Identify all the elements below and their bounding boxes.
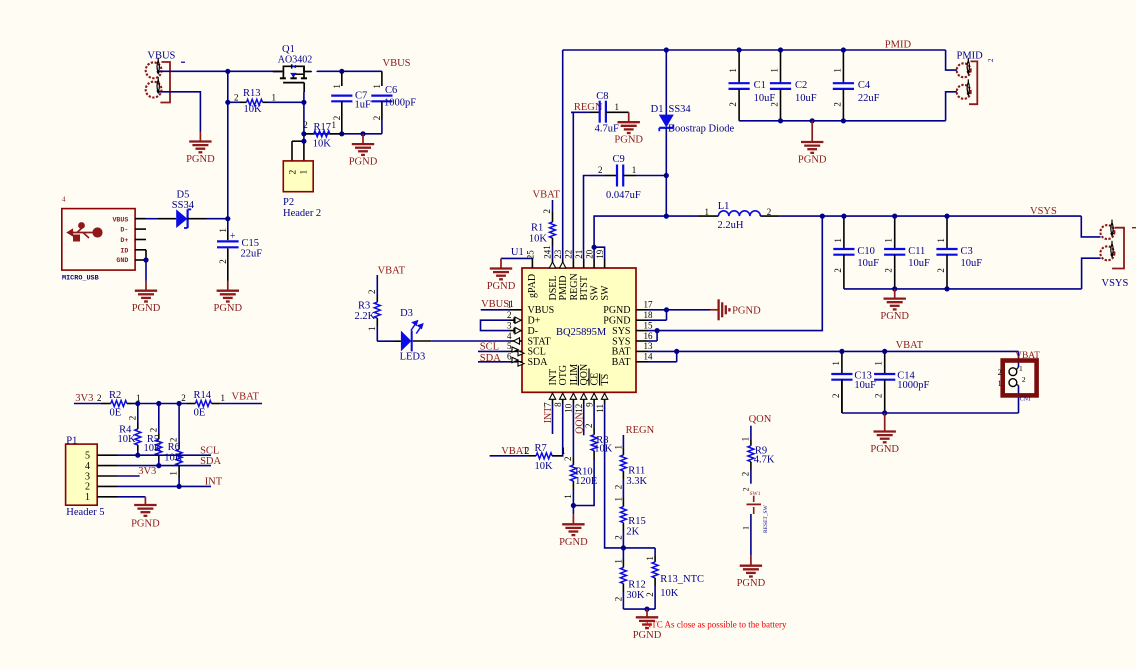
wire TS node to R13_NTC	[623, 547, 655, 549]
svg-text:10K: 10K	[660, 588, 679, 599]
svg-text:1: 1	[831, 361, 841, 366]
junction at (179.1,486.4)	[177, 484, 182, 489]
svg-text:11: 11	[595, 404, 605, 413]
IC U1 left pin 1 VBUS	[510, 309, 522, 311]
svg-text:P1: P1	[66, 435, 77, 446]
wire GND down to PGND	[145, 260, 147, 281]
IC U1 top pin 22 REGN	[572, 259, 574, 268]
ground PGND under MICRO_USB	[145, 281, 147, 291]
svg-text:PGND: PGND	[633, 630, 662, 641]
resistor R3	[376, 275, 378, 295]
junction at (822.3,216.1)	[820, 214, 825, 219]
junction at (657.1,330.6)	[655, 328, 660, 333]
svg-text:VBAT: VBAT	[896, 340, 924, 351]
IC U1 left pin 6 SDA	[510, 361, 522, 363]
header P2	[303, 134, 305, 141]
wire OTG from U1 pin8 to R7	[552, 404, 563, 456]
svg-text:0E: 0E	[110, 408, 122, 419]
svg-text:1: 1	[741, 437, 751, 442]
capacitor C11	[894, 216, 896, 249]
svg-text:R13_NTC: R13_NTC	[660, 574, 704, 585]
IC U1 pin glyphs left edge	[515, 317, 521, 323]
svg-text:1: 1	[705, 207, 710, 217]
resistor R6	[178, 404, 180, 444]
svg-text:10K: 10K	[244, 104, 263, 115]
svg-text:VBUS: VBUS	[481, 299, 509, 310]
IC U1 right pin 13 BAT	[636, 350, 648, 352]
wire SDA to U1 pin6	[478, 361, 510, 363]
wire PMID top rail	[563, 49, 946, 51]
svg-text:7: 7	[543, 402, 553, 407]
svg-text:PGND: PGND	[349, 157, 378, 168]
svg-text:1: 1	[645, 556, 655, 561]
ground PGND under P1	[134, 504, 156, 506]
svg-text:2: 2	[127, 416, 137, 421]
svg-text:2: 2	[831, 394, 841, 399]
svg-text:2: 2	[769, 102, 779, 107]
svg-text:1: 1	[613, 559, 623, 564]
svg-text:10K: 10K	[118, 434, 137, 445]
svg-text:2: 2	[218, 259, 228, 264]
svg-text:18: 18	[644, 310, 654, 320]
junction at (676.7,351.4)	[674, 349, 679, 354]
svg-text:10uF: 10uF	[857, 258, 879, 269]
svg-text:19: 19	[595, 249, 605, 259]
svg-text:2: 2	[998, 368, 1002, 377]
svg-text:PMID: PMID	[558, 275, 569, 300]
svg-text:VSYS: VSYS	[1030, 206, 1057, 217]
tiny mark near VBUS loops	[181, 61, 185, 63]
resistor R1	[552, 200, 554, 212]
capacitor C4	[842, 50, 844, 83]
svg-text:12: 12	[574, 404, 584, 413]
svg-text:1: 1	[613, 445, 623, 450]
wire Q1 drain to VBUS rail right	[304, 71, 313, 73]
svg-text:PGND: PGND	[880, 311, 909, 322]
IC U1 right pin 14 BAT	[636, 361, 648, 363]
svg-text:SYS: SYS	[612, 336, 630, 347]
IC U1 left pin 5 SCL	[510, 350, 522, 352]
svg-text:10K: 10K	[529, 234, 548, 245]
svg-text:4: 4	[507, 331, 512, 341]
wire VSYS rail	[822, 215, 1081, 217]
svg-text:10uF: 10uF	[854, 380, 876, 391]
wire TS from U1 pin11	[605, 404, 624, 548]
junction at (812.2,120.8)	[810, 118, 815, 123]
svg-text:4: 4	[85, 461, 90, 472]
svg-text:gPAD: gPAD	[527, 274, 538, 298]
svg-text:VBAT: VBAT	[378, 265, 406, 276]
wire Q1 gate down to R13/R17 node	[303, 92, 305, 134]
junction at (137.8,455.2)	[135, 453, 140, 458]
resistor R9	[750, 426, 752, 440]
svg-text:1: 1	[561, 446, 566, 456]
IC U1 top pin 23 PMID	[562, 259, 564, 268]
wire STAT from LED3 to U1 pin4	[413, 340, 432, 342]
svg-text:PGND: PGND	[487, 281, 516, 292]
wire SDA from P1 pin4	[117, 465, 211, 467]
svg-text:REGN: REGN	[626, 425, 655, 436]
svg-text:5: 5	[507, 341, 512, 351]
IC U1 bottom pin 7 INT	[552, 392, 554, 403]
junction at (303.9,141.2)	[301, 139, 306, 144]
svg-text:23: 23	[553, 249, 563, 259]
svg-text:PGND: PGND	[603, 305, 630, 316]
IC U1 top pin 19 SW	[604, 259, 606, 268]
IC U1 left pin 4 STAT	[510, 340, 522, 342]
svg-text:1: 1	[372, 84, 382, 89]
wire bottom rail R12/R13_NTC	[623, 608, 655, 610]
junction at (227.8,102.3)	[225, 100, 230, 105]
svg-text:D+: D+	[120, 237, 128, 244]
IC U1 right pin 16 SYS	[636, 340, 648, 342]
svg-text:PMID: PMID	[885, 40, 912, 51]
svg-text:3.3K: 3.3K	[626, 476, 647, 487]
svg-text:1: 1	[509, 299, 514, 309]
svg-text:D3: D3	[400, 308, 413, 319]
svg-text:1: 1	[884, 238, 894, 243]
svg-text:2.2uH: 2.2uH	[718, 220, 744, 231]
svg-text:R14: R14	[194, 390, 212, 401]
svg-text:PGND: PGND	[559, 537, 588, 548]
svg-text:2: 2	[1022, 375, 1026, 384]
junction at (841.9,351.4)	[839, 349, 844, 354]
svg-text:PGND: PGND	[186, 154, 215, 165]
capacitor C1	[738, 50, 740, 83]
svg-text:4: 4	[62, 196, 66, 204]
junction at (894.7,216.1)	[892, 214, 897, 219]
IC U1 right pin 15 SYS	[636, 330, 648, 332]
svg-text:CE: CE	[590, 373, 601, 386]
svg-text:2: 2	[833, 268, 843, 273]
capacitor C13	[841, 351, 843, 374]
svg-text:1: 1	[542, 245, 552, 250]
junction at (303.9,101.9)	[301, 100, 306, 105]
capacitor C10	[843, 216, 845, 249]
wire U1 pin22 REGN up and left	[571, 112, 573, 259]
svg-text:R17: R17	[314, 122, 332, 133]
wire SCL from P1 pin5	[117, 454, 211, 456]
wire ID to GND tie	[145, 250, 147, 260]
svg-text:22uF: 22uF	[858, 93, 880, 104]
wire loop D+ D- U1 pins 2-3	[481, 320, 511, 330]
svg-text:PGND: PGND	[798, 155, 827, 166]
svg-text:21: 21	[574, 250, 584, 259]
svg-text:3V3: 3V3	[75, 393, 93, 404]
capacitor C7	[341, 71, 343, 86]
svg-text:1: 1	[332, 84, 342, 89]
svg-text:VBUS: VBUS	[383, 58, 411, 69]
svg-text:R12: R12	[628, 579, 646, 590]
svg-text:SW1: SW1	[750, 491, 761, 497]
svg-text:PGND: PGND	[737, 578, 766, 589]
junction at (179.1,403.5)	[177, 401, 182, 406]
wire vertical from VBUS rail down to D5 node	[227, 71, 229, 218]
svg-text:C15: C15	[242, 238, 260, 249]
svg-text:1: 1	[833, 238, 843, 243]
junction at (739.1,50)	[737, 47, 742, 52]
svg-text:PGND: PGND	[131, 519, 160, 530]
svg-text:2K: 2K	[626, 527, 639, 538]
svg-text:2: 2	[525, 446, 530, 456]
junction at (647,609.1)	[644, 607, 649, 612]
svg-text:CN1: CN1	[1020, 396, 1031, 402]
capacitor C6	[381, 71, 383, 86]
inductor L1	[666, 215, 698, 217]
svg-text:PGND: PGND	[214, 303, 243, 314]
svg-text:2: 2	[613, 485, 623, 490]
junction at (227.8,71.3)	[225, 69, 230, 74]
svg-text:SDA: SDA	[200, 456, 221, 467]
wire U1 pins 19/20 SW up to SW rail	[594, 247, 605, 259]
resistor R11	[622, 435, 624, 448]
svg-text:16: 16	[644, 331, 654, 341]
svg-text:1: 1	[998, 379, 1002, 388]
junction at (780.5,120.8)	[778, 118, 783, 123]
svg-text:+: +	[230, 231, 236, 242]
junction at (594.1,247.2)	[592, 245, 597, 250]
tiny mark near VSYS loops	[1132, 227, 1136, 229]
junction at (666.3,216.1)	[664, 214, 669, 219]
wire INT from U1 pin7	[552, 404, 554, 435]
svg-text:R2: R2	[109, 390, 121, 401]
svg-text:13: 13	[644, 341, 654, 351]
svg-text:2: 2	[563, 457, 573, 462]
svg-text:8: 8	[553, 402, 563, 407]
resistor R4	[137, 404, 139, 424]
wire PMID cap bank bottom rail	[739, 120, 946, 122]
svg-text:2: 2	[584, 424, 594, 429]
wire SW1 to ground	[750, 514, 752, 556]
svg-text:4.7uF: 4.7uF	[595, 124, 619, 135]
diode D1 SS34 bootstrap	[665, 50, 667, 116]
junction at (843.4,120.8)	[841, 118, 846, 123]
ground PGND under VSYS bank	[894, 289, 896, 299]
svg-text:2: 2	[372, 116, 382, 121]
svg-text:PMID: PMID	[957, 51, 984, 62]
svg-text:2: 2	[987, 58, 995, 62]
test loop VBUS loop 1	[146, 62, 162, 78]
IC U1 left pin 3 D-	[510, 330, 522, 332]
wire 3V3 from P1 pin3	[117, 475, 140, 477]
svg-text:PGND: PGND	[614, 135, 643, 146]
svg-text:2: 2	[289, 170, 299, 175]
svg-text:NTC As close as possible to th: NTC As close as possible to the battery	[645, 620, 787, 630]
junction at (666.3,50)	[664, 47, 669, 52]
svg-text:2: 2	[148, 428, 158, 433]
svg-text:2: 2	[832, 102, 842, 107]
junction at (884.7,413)	[882, 410, 887, 415]
svg-text:BAT: BAT	[612, 347, 631, 358]
capacitor C8	[571, 111, 590, 113]
svg-text:2: 2	[613, 535, 623, 540]
svg-text:30K: 30K	[626, 590, 645, 601]
ground PGND under SW1	[750, 556, 752, 566]
svg-text:OTG: OTG	[558, 365, 569, 386]
svg-text:SCL: SCL	[200, 446, 219, 457]
svg-text:C4: C4	[858, 80, 871, 91]
ground PGND under R10/R8	[572, 506, 574, 515]
svg-text:10K: 10K	[144, 443, 163, 454]
junction at (341.8,133.8)	[339, 131, 344, 136]
test loop VBUS loop 2	[146, 82, 162, 98]
capacitor C14	[884, 351, 886, 374]
IC U1 bottom pin 10 ILIM	[572, 392, 574, 403]
junction at (227.8,218.7)	[225, 216, 230, 221]
svg-text:10K: 10K	[164, 453, 183, 464]
svg-text:2: 2	[542, 209, 552, 214]
svg-text:INT: INT	[543, 407, 554, 424]
wire U1 pin24 up to R1 (DSEL)	[552, 258, 554, 260]
USB trident icon	[67, 223, 102, 241]
IC U1 bottom pin 11 TS	[604, 392, 606, 403]
svg-text:4.7K: 4.7K	[754, 455, 775, 466]
svg-text:QON: QON	[574, 412, 585, 434]
svg-text:1: 1	[169, 471, 179, 476]
ground PGND under C15	[227, 281, 229, 291]
svg-text:Q1: Q1	[282, 44, 295, 55]
svg-text:VBUS: VBUS	[528, 305, 555, 316]
svg-text:2: 2	[884, 268, 894, 273]
svg-text:1: 1	[728, 68, 738, 73]
svg-text:2: 2	[303, 120, 308, 130]
ground PGND at C8	[628, 112, 630, 122]
resistor R13_NTC	[654, 548, 656, 556]
wire U1 pin23 PMID up to top rail	[562, 50, 564, 259]
junction at (158.8,403.5)	[156, 401, 161, 406]
ground PGND at U1 gPAD	[500, 258, 502, 268]
wire VBAT bank bottom rail	[842, 412, 1019, 414]
svg-text:1: 1	[742, 526, 751, 530]
svg-text:C6: C6	[385, 85, 397, 96]
svg-text:3V3: 3V3	[138, 466, 156, 477]
svg-text:SDA: SDA	[528, 357, 549, 368]
svg-text:15: 15	[644, 320, 654, 330]
svg-text:1: 1	[332, 120, 337, 130]
svg-text:VBUS: VBUS	[112, 216, 128, 223]
svg-text:3: 3	[507, 320, 512, 330]
svg-text:2: 2	[181, 393, 186, 403]
IC U1 bottom pin 12 QON	[583, 392, 585, 403]
svg-text:C2: C2	[795, 80, 807, 91]
resistor R13	[228, 101, 240, 103]
svg-text:1: 1	[367, 327, 377, 332]
svg-text:0E: 0E	[194, 408, 206, 419]
svg-text:D1: D1	[651, 104, 664, 115]
svg-text:SW: SW	[600, 285, 611, 301]
svg-text:1: 1	[874, 361, 884, 366]
svg-text:9: 9	[584, 402, 594, 407]
ground PGND under VBUS loop	[199, 132, 201, 142]
svg-text:AO3402: AO3402	[278, 55, 312, 66]
svg-text:1: 1	[769, 68, 779, 73]
svg-text:R15: R15	[628, 516, 646, 527]
svg-text:C8: C8	[596, 91, 608, 102]
IC U1 bottom pin 8 OTG	[562, 392, 564, 403]
svg-text:1: 1	[832, 68, 842, 73]
ground PGND under C7/C6 rail	[362, 134, 364, 144]
resistor R17	[304, 133, 314, 135]
svg-text:1: 1	[300, 170, 310, 175]
wire INT from P1 pin2	[117, 485, 211, 487]
junction at (146,260)	[143, 257, 148, 262]
svg-text:MICRO_USB: MICRO_USB	[62, 275, 99, 283]
svg-text:1: 1	[1019, 364, 1023, 373]
IC U1 top pin 20 SW	[593, 259, 595, 268]
svg-text:1: 1	[632, 165, 637, 175]
svg-text:3: 3	[85, 471, 90, 482]
svg-text:VBAT: VBAT	[533, 190, 561, 201]
wire ILIM from U1 pin10 to R10	[572, 404, 574, 459]
svg-text:2: 2	[85, 482, 90, 493]
svg-text:Header 2: Header 2	[283, 208, 321, 219]
svg-text:2: 2	[507, 310, 512, 320]
junction at (341.8,71.3)	[339, 69, 344, 74]
svg-text:D-: D-	[120, 227, 128, 234]
svg-text:1: 1	[218, 228, 228, 233]
svg-text:U1: U1	[511, 247, 524, 258]
junction at (780.5,50)	[778, 47, 783, 52]
svg-text:R7: R7	[535, 443, 547, 454]
svg-text:10K: 10K	[535, 461, 554, 472]
svg-text:22: 22	[564, 250, 574, 259]
svg-text:2.2K: 2.2K	[355, 311, 376, 322]
resistor R2	[74, 403, 101, 405]
svg-text:2: 2	[741, 472, 751, 477]
svg-text:PGND: PGND	[603, 316, 630, 327]
wire VSYS bank bottom rail	[844, 288, 1082, 290]
svg-text:1: 1	[613, 497, 623, 502]
svg-text:2: 2	[97, 393, 102, 403]
wire SCL to U1 pin5	[478, 350, 510, 352]
wire U1 pin21 BTST up to C9	[584, 176, 591, 260]
svg-text:Header 5: Header 5	[66, 507, 104, 518]
IC U1 bottom pin 9 CE	[593, 392, 595, 403]
capacitor C9	[590, 175, 605, 177]
svg-text:BAT: BAT	[612, 357, 631, 368]
svg-text:SS34: SS34	[172, 200, 195, 211]
wire VBUS to U1 pin1	[481, 309, 510, 311]
svg-text:D5: D5	[177, 189, 190, 200]
junction at (666.5,309.8)	[664, 307, 669, 312]
svg-text:R6: R6	[168, 442, 180, 453]
wire BAT from U1 pins13/14	[648, 350, 677, 352]
junction at (947,288.9)	[944, 286, 949, 291]
svg-text:1: 1	[221, 393, 226, 403]
svg-text:2: 2	[767, 207, 772, 217]
svg-text:C3: C3	[961, 246, 973, 257]
test loop connector VSYS	[1081, 216, 1100, 237]
junction at (894.7,288.9)	[892, 286, 897, 291]
svg-text:VBAT: VBAT	[232, 392, 260, 403]
svg-text:2: 2	[936, 268, 946, 273]
ground PGND rotated at U1 pin17	[710, 309, 719, 311]
wire VBUS rail top-left	[159, 70, 283, 72]
wire SYS from U1 pins15/16	[648, 330, 657, 332]
test loop VBUS bracket	[160, 62, 170, 103]
resistor R14	[187, 403, 195, 405]
IC U1 active-low overbars ILIM QON CE	[577, 366, 579, 386]
svg-text:C1: C1	[754, 80, 766, 91]
svg-text:10K: 10K	[594, 444, 613, 455]
svg-text:2: 2	[728, 102, 738, 107]
svg-text:BQ25895M: BQ25895M	[556, 327, 607, 338]
svg-text:D-: D-	[528, 326, 539, 337]
wire from lower VBUS loop	[159, 92, 201, 132]
svg-text:10: 10	[564, 403, 574, 413]
svg-text:C10: C10	[857, 246, 875, 257]
header P1	[66, 444, 98, 505]
